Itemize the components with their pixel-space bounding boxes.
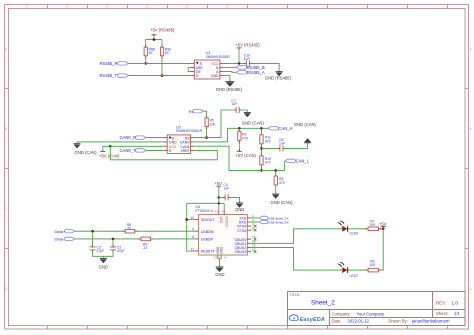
resistor R88 [144,47,155,56]
svg-text:+5V: +5V [379,221,387,226]
wire RS485_TX [129,75,191,77]
junction CANL/R4 [274,169,277,172]
resistor R9 [238,128,248,140]
wire TXD to port [251,217,259,219]
svg-text:GND (RS485): GND (RS485) [265,75,292,80]
wire CAN0_TX to U5 R [146,149,163,151]
junction 3V3OUT [185,218,188,221]
wire R10 bottom stub [260,165,262,171]
svg-text:GND: GND [215,272,224,277]
svg-text:B: B [470,127,472,131]
svg-text:+5V (RS485): +5V (RS485) [150,28,175,33]
svg-text:Date:: Date: [332,319,342,324]
svg-text:CAN_H: CAN_H [278,126,292,131]
capacitor C10 [244,54,252,67]
U5 right pin stubs [190,138,194,151]
svg-text:47pF: 47pF [117,249,125,253]
svg-text:SN65HVD230DR: SN65HVD230DR [176,129,203,133]
junction CANH/R9 [238,127,241,130]
svg-text:SN65HVD05DR: SN65HVD05DR [206,55,231,59]
port CAN_L [285,159,310,164]
svg-text:VREF: VREF [181,149,190,153]
+5V (RS485) flag right [235,43,260,64]
svg-text:2022-01-12: 2022-01-12 [348,319,370,324]
wire Data- to R9b [75,238,141,240]
junction Data-/C2 [112,238,115,241]
svg-text:1.0: 1.0 [452,300,459,305]
ground GND (CAN) at R4 [270,194,293,205]
junction R88/RX [144,62,147,65]
port RS485_A [236,70,265,75]
wire pullup rail [146,39,162,41]
svg-text:+5V (CAN): +5V (CAN) [236,153,257,158]
svg-text:3V3OUT: 3V3OUT [201,218,215,222]
svg-text:Sheet_2: Sheet_2 [311,300,335,307]
port CAN0_RX [120,135,147,140]
svg-text:Drawn By:: Drawn By: [389,319,408,324]
port USB Serial_TX [259,216,288,220]
wire C10 right to GND [250,63,279,71]
port CAN_H [268,126,293,131]
svg-text:8: 8 [192,235,194,239]
svg-text:10K: 10K [369,223,376,227]
wire CANH net [194,128,267,142]
junction R90/TX [161,74,164,77]
port RS485_B [236,65,265,70]
wire R4 bottom stub [275,185,277,194]
wire 3V3OUT/RESET tie [186,203,198,251]
junction VCC riser [218,196,221,199]
svg-text:22: 22 [143,246,147,250]
resistor R10 [260,148,271,164]
svg-text:3: 3 [106,5,108,9]
svg-text:5: 5 [186,5,188,9]
junction +5V/VCC [109,145,112,148]
svg-text:TITLE:: TITLE: [290,293,301,297]
svg-text:1K: 1K [165,51,170,55]
svg-text:10K: 10K [210,123,217,127]
svg-text:GND: GND [211,74,219,78]
svg-text:B: B [5,127,7,131]
wire R88 top stub [145,40,147,48]
svg-text:12: 12 [214,209,218,213]
wire R9b to USBDP [151,238,195,240]
resistor R4 [274,170,285,185]
junction R10/CANL [260,169,263,172]
svg-text:6: 6 [226,5,228,9]
LED LED7 [338,262,358,278]
svg-text:GND: GND [99,264,108,269]
wire GND join below U4 [218,259,221,267]
wire CBUS2 to LED7 [251,247,383,270]
svg-text:470: 470 [265,139,271,143]
ground GND (CAN) at C7 [242,113,265,126]
junction R11/R10/C8 [260,147,263,150]
ground GND (CAN) up flag [294,122,317,143]
ground GND (CAN) left [74,142,98,155]
wire VCC risers [187,197,225,209]
capacitor C7 [231,99,241,113]
+5V (RS485) flag left [150,28,175,40]
port CAN0_TX [120,148,147,153]
svg-text:GND: GND [219,246,223,254]
svg-text:USBDP: USBDP [201,238,214,242]
capacitor C2 [110,239,125,253]
wire GND net to U5 GND [77,141,163,143]
svg-text:1uF: 1uF [279,142,285,146]
wire R8 to USBDM [135,230,195,232]
wire R90 top stub [161,40,163,48]
wire Data+ to R8 [75,230,125,232]
wire RXD to port [251,221,259,223]
ground GND (RS485) below U3 [216,82,243,93]
capacitor C4 [223,183,231,201]
wire CBUS1 to LED8 [251,229,383,244]
svg-text:+5V (RS485): +5V (RS485) [235,43,260,48]
wire U3 GND down [224,76,230,82]
U4 top pin stubs [219,210,224,215]
wire CAN0_RX to U5 D [146,137,163,139]
wire junction to C8 [261,147,279,149]
+5V (CAN) flag left [99,146,120,158]
svg-text:1uF: 1uF [223,187,229,191]
wire R9 to +5V [238,140,240,151]
junction R5/RS [205,136,208,139]
svg-text:USB Serial_RX: USB Serial_RX [268,221,289,225]
wire Rs to R5 [204,111,207,118]
no-connect x CBUS3 [254,250,257,253]
svg-text:10K: 10K [369,263,376,267]
svg-text:Sheet:: Sheet: [436,311,448,316]
+5V flag at LEDs [379,221,387,229]
svg-text:GND (RS485): GND (RS485) [216,87,243,92]
U5 pin names [169,136,177,153]
resistor R8 [125,223,135,233]
capacitor C8 [278,138,286,151]
svg-text:FT230XS-U: FT230XS-U [196,209,214,213]
svg-text:EasyEDA: EasyEDA [300,317,325,323]
resistor R5 [205,118,216,127]
wire +5V to C4 [219,196,225,198]
EasyEDA logo [289,314,325,322]
port RS485_TX [100,73,129,78]
resistor R6 [365,260,381,272]
svg-text:VCC: VCC [219,217,223,224]
svg-text:470: 470 [279,181,285,185]
ground GND below C3 C2 [99,256,108,269]
resistor R90 [160,47,171,56]
svg-text:CBUS3: CBUS3 [235,250,247,254]
U4 right pin numbers [252,214,256,252]
IC U3 body [194,60,220,79]
svg-text:470: 470 [242,136,248,140]
U5 left pin stubs [163,138,167,151]
svg-text:13: 13 [214,256,218,260]
U4 bottom pin stubs [218,255,221,259]
U4 right pin names [235,217,247,255]
wire +5V to U5 VCC [110,145,163,147]
no-connect x CTS# [254,229,257,232]
resistor R7 [368,219,378,230]
no-connect x CBUS0 [254,238,257,241]
svg-text:Your Company: Your Company [357,312,385,317]
IC U5 body [167,135,190,154]
wire U3 B to port [224,66,236,68]
svg-text:47pF: 47pF [97,249,105,253]
port RS485_RX [100,61,129,66]
wire U3 A to port [224,71,236,74]
wire RE/DE tie [188,67,191,71]
junction R7/+5V rail [382,228,385,231]
wire C8 to GND riser [283,143,307,149]
resistor R9 (USB) [141,237,151,250]
port Rs [189,109,204,114]
svg-text:GND (CAN): GND (CAN) [242,120,265,125]
+5V flag at U4 [214,181,222,198]
wire R88 bottom stub [145,56,147,64]
svg-text:USBDM: USBDM [201,230,214,234]
svg-text:LED8: LED8 [350,232,359,236]
U4 left pin names [201,218,215,254]
svg-text:VCCIO: VCCIO [224,217,228,228]
svg-text:GND: GND [235,207,244,212]
LED LED8 [338,220,358,235]
port USB Serial_RX [259,220,289,224]
svg-text:RESET#: RESET# [201,250,215,254]
U4 right pin stubs [247,218,251,252]
wire R11 bottom to junction [260,144,262,149]
ground GND at C4 [235,203,244,212]
+5V (CAN) flag mid [236,149,257,158]
svg-text:LED7: LED7 [350,274,359,278]
svg-text:2: 2 [66,5,68,9]
wire R5 bottom stub [206,127,208,138]
svg-text:CAN_L: CAN_L [296,159,310,164]
svg-text:GND (CAN): GND (CAN) [270,200,293,205]
svg-text:RS485_TX: RS485_TX [100,73,121,78]
capacitor C3 [90,231,105,253]
wire +5V rail down to R6 [379,229,384,270]
resistor R11 [260,128,271,144]
IC U4 body [198,215,247,255]
U3 right pin stubs [220,63,224,75]
svg-text:GND (CAN): GND (CAN) [74,150,97,155]
svg-text:1uF: 1uF [231,102,237,106]
svg-text:470: 470 [265,161,271,165]
U4 left pin numbers [190,216,194,252]
ground GND (RS485) right [265,72,292,81]
no-connect x RTS# [254,225,257,228]
svg-text:CTS#: CTS# [237,229,246,233]
wire C7 to GND [240,110,248,113]
U4 left pin stubs [195,220,199,252]
junction rail/+5V [153,38,156,41]
wire R90 bottom stub [161,56,163,76]
wire C3/C2 join [93,250,113,256]
wire U3 VCC net [224,62,245,64]
svg-text:RS485_A: RS485_A [247,70,265,75]
U3 pin names [196,62,203,78]
svg-text:4: 4 [146,5,148,9]
wire +5V to U5 VREF loop [110,146,217,160]
wire CANL net [194,146,284,170]
svg-text:janardhanbabumarri: janardhanbabumarri [411,319,450,324]
wire RS485_RX [129,62,191,64]
svg-text:REV:: REV: [436,300,446,305]
port Data- [55,237,75,242]
U3 left pin stubs [191,63,195,75]
wire RS net to C7 [194,110,236,138]
svg-text:1: 1 [26,5,28,9]
svg-text:1K: 1K [149,51,154,55]
svg-text:GND (CAN): GND (CAN) [294,122,317,127]
port Data+ [55,229,75,234]
svg-text:9: 9 [192,228,194,232]
junction VCC/+5V [238,62,241,65]
svg-text:+5V (CAN): +5V (CAN) [99,153,120,158]
svg-text:Data-: Data- [55,237,65,242]
junction Data+/C3 [91,230,94,233]
svg-text:Company:: Company: [332,312,351,317]
ground GND below U4 [215,267,224,277]
junction CANH/R11 [260,127,263,130]
title block border [288,292,466,326]
svg-text:1/1: 1/1 [454,311,460,316]
svg-text:+5V: +5V [214,181,222,186]
wire C4 to GND [229,197,240,203]
